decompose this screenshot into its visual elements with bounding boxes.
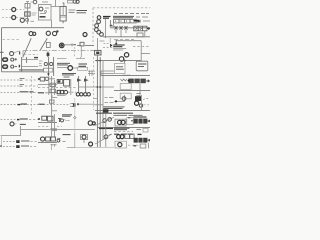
- bottom row boxes: [46, 137, 56, 141]
- callout 27: [10, 122, 14, 126]
- label: tiny marks left of cluster: [39, 61, 43, 66]
- ring bottom center: [104, 135, 108, 139]
- wire: drop from row C: [139, 83, 141, 90]
- label: dashes under: [114, 131, 133, 133]
- wire: link into tank box: [140, 60, 142, 63]
- valve row E dark: [134, 138, 148, 143]
- PC1 ring: [122, 97, 126, 101]
- component end of rail: [70, 103, 75, 107]
- wire: dashes cont: [31, 141, 39, 143]
- wire: pump box lower-right corner: [51, 20, 53, 28]
- wire: vertical from V1: [26, 2, 29, 25]
- dark mark left edge: [19, 52, 21, 55]
- dark blob on rail: [103, 109, 108, 112]
- relief valve cluster center (x44-50 y42-50): [46, 42, 50, 47]
- dark tab top: [34, 57, 38, 59]
- pump ring P3: [84, 93, 91, 96]
- dark end: [17, 119, 19, 121]
- wire: rail y104.8 short: [95, 104, 103, 106]
- callout 10: [124, 53, 128, 57]
- label: text row: [20, 118, 28, 120]
- wire: dashes right of valve row A: [143, 20, 150, 22]
- callout 7b: [118, 143, 122, 147]
- wire: big box bottom edge: [2, 71, 45, 73]
- wire: from pump top to air tank: [42, 0, 61, 7]
- label: bottom text row: [113, 141, 115, 143]
- label: SOL text small: [64, 76, 70, 78]
- wire: rail y92.8: [45, 92, 57, 94]
- tilt box 2: [115, 133, 127, 140]
- callout 13 chain: [97, 30, 101, 34]
- wire: chain circles column verticals: [106, 19, 111, 38]
- dark marks bottom right: [134, 145, 137, 147]
- callout 33 chain: [95, 24, 99, 28]
- junction dots on rail: [96, 60, 125, 62]
- tank top fitting: [68, 0, 74, 3]
- small box right: [143, 128, 148, 132]
- wire: dashes row3: [30, 92, 41, 94]
- valve row A dark block: [138, 20, 141, 23]
- callout 35 chain: [100, 33, 104, 37]
- callout H box: [81, 135, 88, 140]
- dark band right corner: [134, 116, 147, 118]
- diag leader bottom center: [95, 117, 114, 125]
- label: text on rail: [21, 103, 28, 105]
- side box: [127, 118, 133, 125]
- label: dark note bar: [103, 17, 111, 19]
- small boxes on verticals: [50, 83, 55, 92]
- filter F1 row: [40, 77, 48, 81]
- callout 18 pair: [88, 121, 95, 125]
- wire: dashed y87.6: [38, 87, 76, 89]
- label: dashed rail y86: [1, 85, 20, 87]
- wire: F1 link right: [49, 78, 56, 80]
- wire: verticals bottom x51: [52, 144, 55, 150]
- motor M2 dark oval: [2, 57, 8, 62]
- wire: vertical right: [144, 31, 146, 37]
- dark comp cluster right: [135, 96, 141, 101]
- Y component: [57, 138, 60, 142]
- pump dark internals: [40, 16, 46, 18]
- callout 2 top: [76, 0, 79, 3]
- callout 3: [89, 142, 93, 146]
- wire: from callout 17: [57, 67, 77, 69]
- dark corner mark top-right of rail: [134, 20, 140, 22]
- filter row 2: [38, 118, 40, 120]
- wire: stub right of dot: [79, 103, 95, 105]
- wire: main horizontal feed y28: [2, 27, 65, 29]
- wire: drops from row B: [116, 30, 126, 37]
- gauge 30 double circle: [59, 43, 64, 48]
- wire: dashed leader left-top row1: [2, 9, 11, 11]
- label: small text above right valves: [123, 74, 131, 76]
- wire: dashes right of box 9: [103, 47, 114, 49]
- label: DOOR dark text: [62, 115, 72, 116]
- wire: verticals x48,51,54 mid: [49, 76, 55, 95]
- wire: corner x93.6: [94, 98, 98, 100]
- label: text2: [21, 145, 29, 147]
- wire: dashes to arrow: [104, 42, 110, 44]
- label: dashed y141.6: [3, 141, 16, 143]
- sub box: [43, 68, 52, 72]
- wire: rail y127.6 right: [97, 127, 150, 129]
- wire: vertical x20.6 drop: [20, 126, 22, 136]
- callout 20: [12, 16, 16, 20]
- wire: main mid rail y60.5: [95, 60, 141, 62]
- junction arrow mid: [110, 25, 113, 26]
- wire: dashed y126.6 b: [57, 126, 62, 128]
- row2 box: [42, 116, 53, 121]
- wire: vertical x110 upper: [109, 38, 111, 43]
- callout 7 left: [10, 52, 14, 56]
- callout 24: [12, 8, 16, 12]
- side box marks: [128, 118, 133, 121]
- label: TO AIR TAN: [138, 64, 147, 66]
- label: TK text: [74, 44, 77, 46]
- small ring a: [44, 62, 47, 65]
- wire: dashes row1: [26, 79, 39, 81]
- wire: faint rail y147.6: [75, 147, 114, 149]
- label: dashed y146.6: [3, 146, 16, 148]
- pressure spec box: [115, 63, 125, 73]
- wire: left border low: [1, 136, 3, 148]
- wire: inner box right edge upper: [74, 98, 76, 133]
- check valve CV1: [78, 76, 80, 93]
- wire: dashed vertical x93.6: [93, 57, 95, 110]
- label: WHEN LIFT dark band: [62, 73, 76, 75]
- tick on inner box edge: [74, 116, 77, 119]
- wire: corner right-bottom of box: [67, 133, 75, 148]
- wire: center vertical x100: [99, 57, 101, 147]
- wire: left rail y135.6: [1, 135, 21, 137]
- marks right below rail: [136, 94, 141, 96]
- wire: stub near callout 26: [31, 1, 34, 3]
- left edge tick bottom: [0, 145, 2, 147]
- label: text + rail y92.6: [38, 92, 44, 94]
- valve row B right boxes: [134, 26, 147, 31]
- dark tab left: [18, 65, 20, 68]
- pump unit box P1: [39, 5, 52, 21]
- wire: vertical x51.6: [51, 95, 53, 114]
- wire: rail y84.6: [38, 84, 57, 86]
- wire: curve dashes right: [143, 99, 149, 100]
- box below rail right: [120, 93, 131, 99]
- junction dot left: [77, 103, 79, 105]
- wire: inner box left edge: [22, 51, 24, 57]
- callout 25 top: [73, 0, 76, 3]
- tilt ring pair: [118, 120, 126, 124]
- air tank T1 (vertical cylinder): [60, 3, 66, 23]
- label: PUMP MOTOR two rows: [79, 64, 88, 66]
- wire: vertical x148.6: [148, 143, 150, 149]
- wire: dashes row2: [25, 85, 38, 87]
- label: dotted text row far right: [114, 13, 149, 15]
- T-comp with ring: [58, 118, 64, 122]
- wire: tick below: [83, 140, 85, 143]
- label: second note row: [113, 48, 126, 50]
- tilt valve box: [115, 119, 126, 126]
- dark dot row C: [128, 80, 130, 82]
- wire: curve leader from callout 7: [14, 51, 20, 53]
- air tank box right: [136, 61, 148, 71]
- wire: dashes from callout 27: [15, 123, 18, 125]
- wire: full rail y90.6: [114, 90, 150, 92]
- wire: dashed top inner box: [3, 39, 20, 41]
- label: dark spec text y107.6: [104, 107, 125, 109]
- pump ring pair bottom P2: [76, 93, 83, 96]
- callout 14: [119, 57, 123, 61]
- wire: big box left edge: [1, 28, 3, 72]
- label: dark text y128.4 center: [99, 127, 113, 129]
- valve row A (top right): [114, 19, 137, 23]
- box corner top: [52, 95, 57, 97]
- wire: line above: [57, 57, 85, 59]
- wire: vertical x140 lower: [139, 91, 141, 99]
- label: LOWER VALVE dark text: [57, 63, 70, 65]
- small box on vertical: [49, 100, 54, 103]
- valve row D dark: [134, 119, 148, 124]
- callout 17: [68, 66, 73, 71]
- wire: corner drop: [100, 71, 102, 76]
- valve row B symbols: [115, 26, 128, 30]
- label text right of V2: [32, 13, 37, 15]
- component 9 core: [96, 52, 99, 54]
- label: AIR TANK text: [69, 10, 76, 12]
- callout 21 pair: [29, 32, 36, 36]
- wire: dashed y126.6: [38, 126, 50, 128]
- valve V2 body: [25, 12, 31, 16]
- label: WHEN text: [63, 134, 71, 136]
- callout 23: [53, 31, 57, 35]
- wire: dashes cont2: [30, 146, 38, 148]
- label: dashed text row y39.5: [114, 39, 134, 41]
- wire: inner box top rail y50.5: [23, 50, 95, 52]
- wire: right step: [141, 53, 150, 55]
- callout 31: [135, 101, 139, 105]
- box with callout 7b: [115, 141, 127, 148]
- component 9 box: [95, 50, 101, 55]
- label: WHEN text row1: [20, 78, 25, 80]
- dark dot F1: [38, 78, 40, 80]
- label: dashed rail y119.6 left: [1, 119, 18, 121]
- label: dark spec band y113: [96, 112, 133, 114]
- wire: rail y87 center: [79, 86, 114, 88]
- label: dashed rail rows far-left y80: [1, 79, 20, 81]
- bottom filter row ring: [41, 137, 45, 141]
- wire: long rail y129.6: [21, 129, 95, 131]
- left edge tick: [0, 51, 4, 53]
- valve AC small box: [80, 42, 84, 46]
- ticks bottom: [51, 144, 57, 146]
- dark end b1: [16, 140, 19, 143]
- wire: vertical x141.6: [141, 95, 143, 111]
- arrow right of row E: [148, 139, 150, 141]
- dark end b2: [16, 145, 19, 148]
- wire: verticals x105.8: [105, 114, 107, 147]
- lower cluster ring: [64, 90, 68, 94]
- junction dot: [47, 73, 49, 75]
- marks right: [137, 128, 142, 130]
- CV2 arrow: [84, 78, 89, 81]
- control valve frame horizontals: [22, 60, 38, 67]
- junction dot near tank bottom: [56, 30, 58, 32]
- wire: dashed boundary vertical: [92, 8, 94, 44]
- solenoid block cluster: [57, 80, 69, 86]
- wire: center vertical pair x97: [96, 55, 98, 147]
- label: dashed rail y92.6: [1, 92, 20, 94]
- label: bottom spec text patches: [114, 133, 133, 135]
- wire: dashes bottom right: [128, 144, 139, 146]
- callout 26 top: [33, 0, 37, 4]
- valve V1 top small box: [25, 4, 30, 9]
- mid boxes bottom: [125, 134, 134, 139]
- label: 1.5MPa text: [116, 67, 124, 69]
- wire: dashed leader row1 to valve: [16, 9, 25, 11]
- arrow right of row C: [146, 80, 149, 82]
- dashed sub-box below row C: [120, 83, 131, 89]
- ring 12a: [103, 119, 107, 123]
- solenoid S1 dark: [47, 52, 49, 58]
- wire: box bottom center: [57, 95, 66, 97]
- wire: long dashed boundary top-right horizontal: [93, 7, 150, 9]
- wire: rail y101.6: [114, 101, 124, 103]
- wire: vertical into box 9: [97, 38, 99, 50]
- callout 8: [46, 31, 50, 35]
- ring pair bottom: [117, 135, 124, 139]
- label: small text right-center: [100, 40, 105, 42]
- arrow at right of row B: [147, 27, 150, 29]
- wire: dashed drop right-center: [74, 47, 76, 57]
- label: light dashes after band: [136, 16, 148, 18]
- ticks right: [51, 129, 58, 131]
- label: AC AMP text row: [77, 44, 94, 46]
- motor M3 dark oval: [2, 64, 8, 69]
- wire: rail y110.6: [95, 110, 150, 112]
- ring below: [139, 104, 142, 107]
- diag leader bottom: [95, 137, 107, 144]
- callout 25b dark: [83, 33, 87, 37]
- wire: from gauge right: [65, 43, 77, 46]
- small box bottom right: [140, 144, 146, 148]
- small box under row B: [137, 33, 143, 37]
- check valve arrowhead dark: [110, 44, 113, 48]
- label: dark heading band right: [113, 16, 134, 18]
- label: text row3 dark: [20, 91, 34, 93]
- right valve row C dark blocks: [128, 79, 145, 84]
- wire: dashes: [29, 119, 38, 121]
- arrowhead dark: [115, 43, 117, 45]
- solenoid S1 body: [47, 53, 50, 56]
- small gauge beside M2: [11, 58, 17, 61]
- callout 4 chain: [97, 20, 101, 24]
- wire: arrow down into text: [115, 40, 117, 45]
- callout 5 chain: [95, 28, 99, 32]
- spring marks left of row C: [121, 79, 127, 81]
- wire: tick y110.8: [52, 110, 57, 112]
- wire: dashed leader left-top row2: [2, 17, 11, 19]
- manifold grid small: [88, 70, 95, 76]
- CV1 arrow: [77, 78, 82, 81]
- label: dashes right column y102.4: [105, 101, 114, 103]
- wire: rail y122.6: [38, 122, 57, 124]
- wire: rail y142.6: [38, 142, 57, 144]
- dark marks above valve row E: [138, 133, 142, 135]
- control valve frame verticals: [22, 57, 27, 72]
- lower cluster dark boxes: [57, 90, 63, 93]
- wire: drop to pressure box: [124, 61, 126, 64]
- wire: dashed vertical x31.5: [31, 76, 33, 114]
- label: HIGH PRESSURE LINE dark band: [113, 45, 125, 47]
- label: spec text row right y115: [114, 114, 143, 116]
- wire: long dashed control rail y104.6: [1, 104, 71, 106]
- small gauge beside M3: [11, 65, 17, 68]
- valve cluster verticals x48 x53: [49, 57, 54, 76]
- label: two-line note left of dashed box: [77, 11, 88, 13]
- wire: verticals x51,54 lower: [52, 114, 55, 137]
- wire: dashed mid right: [133, 45, 150, 47]
- label: text row2: [20, 84, 25, 86]
- wire: long rail y75.6: [101, 75, 150, 77]
- wire: drop from AC box: [80, 46, 82, 57]
- wire: small frame left of row B: [111, 21, 114, 28]
- junction dots rail y87: [97, 86, 102, 88]
- wire: cluster vertical: [70, 79, 72, 95]
- label: text row2: [20, 123, 26, 125]
- label: TILT CYLINDER dark: [114, 128, 130, 130]
- dark end mark: [18, 104, 21, 106]
- pump internals: [40, 8, 49, 14]
- arrow right of row D: [148, 120, 150, 122]
- box under text: [78, 67, 88, 70]
- dark dot left: [115, 100, 117, 102]
- lever diagonal: [23, 38, 31, 57]
- wire: bottom rail of top-right section: [103, 36, 150, 38]
- wire: diagonal upper tail: [40, 38, 47, 50]
- label: dashes right of callout 1: [26, 20, 34, 22]
- curve link: [64, 120, 70, 121]
- label: MFV text: [39, 103, 45, 105]
- small marks: [63, 141, 66, 143]
- motor M1 circle inside P1: [39, 7, 43, 11]
- callout 1: [20, 18, 24, 22]
- dark patch in cluster: [58, 80, 60, 82]
- wire: dashed under rail: [24, 54, 38, 56]
- pressure comp PC1: [123, 95, 125, 102]
- wire: dashed y104.8 right: [144, 104, 151, 106]
- heavy rail y70: [19, 69, 44, 71]
- gauge G1 small circle: [26, 18, 29, 21]
- wire: triple rail right y71: [101, 71, 114, 73]
- ring 12b: [108, 118, 112, 122]
- wire: center vertical x103: [102, 61, 104, 140]
- wire: cluster link right: [68, 91, 76, 93]
- wire: right top link: [117, 41, 142, 61]
- label: dashes right column y97.6: [105, 97, 114, 99]
- label: text: [21, 140, 30, 142]
- valve row B with arrows (x114-150 y26-31): [110, 27, 150, 29]
- mark arrow: [109, 134, 112, 135]
- check valve CV2: [85, 76, 87, 93]
- callout 36 with bar: [97, 16, 101, 20]
- small ring b: [50, 62, 53, 65]
- wire: dashed leader row2 to valve: [16, 17, 25, 19]
